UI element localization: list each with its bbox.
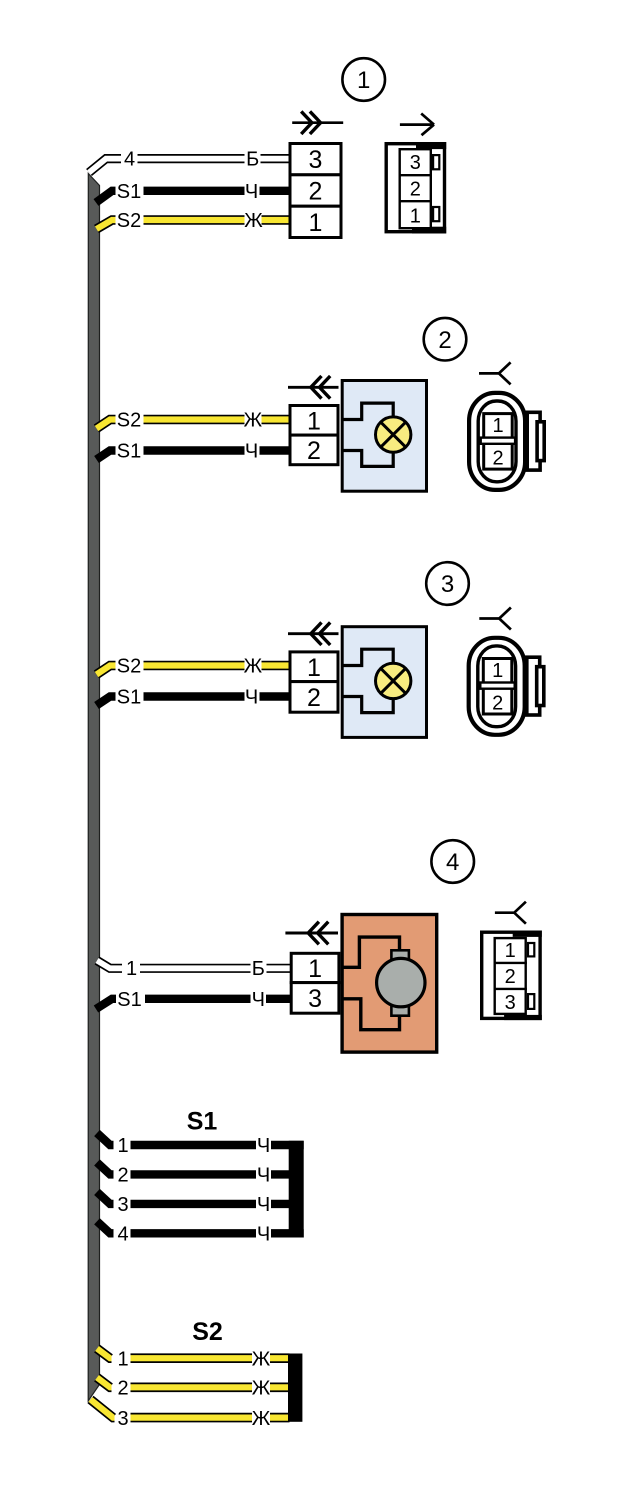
svg-text:2: 2: [438, 327, 451, 354]
splice S2 wire 1 (yellow, Ж): [97, 1349, 290, 1359]
svg-text:3: 3: [441, 571, 454, 598]
svg-text:S2: S2: [117, 656, 141, 678]
svg-text:Б: Б: [246, 149, 259, 171]
svg-text:2: 2: [493, 448, 504, 470]
svg-text:3: 3: [117, 1408, 128, 1430]
wire S1 (black, Ч) to motor pin 3: [96, 999, 292, 1009]
svg-text:3: 3: [308, 985, 322, 1013]
svg-text:2: 2: [117, 1165, 128, 1187]
svg-text:S2: S2: [117, 210, 141, 232]
svg-text:1: 1: [117, 1135, 128, 1157]
splice S2 wire 3 (yellow, Ж): [91, 1400, 290, 1418]
lamp 3 housing mating symbol: [479, 608, 511, 630]
wire S1 (black, Ч) to lamp 3 pin 2: [97, 697, 292, 706]
svg-text:1: 1: [410, 206, 421, 228]
lamp 2 housing mating symbol: [479, 362, 511, 384]
splice S2 bus bar: [288, 1354, 302, 1422]
connector X1 housing (face view): [386, 144, 444, 232]
wire 4 (white, Б) to pin 3: [89, 159, 291, 173]
svg-text:Ж: Ж: [244, 210, 263, 232]
motor armature (gray circle): [377, 958, 425, 1006]
splice S2 wire 2 (yellow, Ж): [97, 1378, 290, 1388]
svg-text:1: 1: [309, 209, 323, 237]
svg-text:4: 4: [124, 149, 135, 171]
svg-text:1: 1: [307, 407, 321, 435]
svg-text:2: 2: [410, 178, 421, 200]
callout circle 1: [342, 58, 385, 101]
svg-text:S2: S2: [117, 410, 141, 432]
svg-text:Ч: Ч: [245, 687, 258, 709]
lamp 3 connector pins 1-2: [290, 652, 338, 682]
lamp 3 connector housing (face view): [469, 638, 525, 735]
svg-text:4: 4: [117, 1224, 128, 1246]
connector X1 direction arrow (double chevron right): [292, 121, 343, 124]
svg-text:2: 2: [307, 437, 321, 465]
svg-text:Ж: Ж: [252, 1408, 271, 1430]
svg-text:Ч: Ч: [257, 1165, 270, 1187]
svg-text:Ч: Ч: [257, 1224, 270, 1246]
wire S1 (black, Ч) to pin 2: [96, 191, 291, 203]
svg-text:4: 4: [446, 849, 459, 876]
svg-text:S1: S1: [117, 441, 141, 463]
svg-text:Ж: Ж: [244, 410, 263, 432]
svg-text:1: 1: [357, 67, 370, 94]
connector X1 mating arrow: [400, 114, 434, 136]
svg-text:Ч: Ч: [245, 441, 258, 463]
svg-text:1: 1: [126, 958, 137, 980]
motor 4 connector pins 1-3: [291, 953, 339, 982]
svg-text:2: 2: [492, 693, 503, 715]
svg-text:3: 3: [117, 1194, 128, 1216]
wire S2 (yellow, Ж) to pin 1: [97, 220, 292, 229]
svg-text:S1: S1: [117, 989, 141, 1011]
svg-text:2: 2: [505, 966, 516, 988]
svg-text:Б: Б: [252, 958, 265, 980]
callout circle 4: [431, 840, 474, 883]
wire S1 (black, Ч) to lamp 2 pin 2: [97, 451, 292, 460]
lamp 3 connector chevron (double left): [288, 632, 339, 635]
svg-text:3: 3: [505, 992, 516, 1014]
svg-text:Ч: Ч: [257, 1194, 270, 1216]
svg-text:2: 2: [309, 178, 323, 206]
washer pump motor 4 (orange box): [342, 915, 437, 1053]
lamp 2 connector chevron (double left): [288, 386, 339, 389]
lamp 2 connector pins 1-2: [290, 406, 338, 436]
splice S1 wire 1 (black, Ч): [97, 1133, 304, 1145]
wire 1 (white, Б) to motor pin 1: [97, 961, 292, 969]
connector X1 pins 3-2-1: [290, 144, 341, 175]
svg-text:1: 1: [307, 654, 321, 682]
wire S2 (yellow, Ж) to lamp 3 pin 1: [97, 666, 292, 675]
svg-text:Ч: Ч: [252, 989, 265, 1011]
connector X4 mating symbol: [495, 902, 526, 924]
callout circle 3: [426, 562, 469, 605]
svg-text:2: 2: [307, 684, 321, 712]
svg-text:1: 1: [493, 415, 504, 437]
connector X4 housing (face view): [482, 932, 540, 1018]
splice S1 bus bar: [289, 1141, 304, 1238]
side-marker lamp 2 (bulb symbol): [342, 381, 426, 492]
svg-text:3: 3: [309, 146, 323, 174]
svg-text:Ж: Ж: [252, 1348, 271, 1370]
harness trunk: [88, 174, 99, 1401]
callout circle 2: [424, 318, 467, 361]
splice S1 wire 2 (black, Ч): [97, 1162, 290, 1174]
svg-text:3: 3: [410, 152, 421, 174]
wire S2 (yellow, Ж) to lamp 2 pin 1: [97, 420, 292, 429]
svg-text:S1: S1: [187, 1108, 218, 1136]
splice S1 wire 4 (black, Ч): [97, 1221, 304, 1233]
svg-text:2: 2: [117, 1378, 128, 1400]
svg-text:Ж: Ж: [252, 1378, 271, 1400]
svg-text:1: 1: [492, 660, 503, 682]
svg-text:1: 1: [308, 955, 322, 983]
svg-text:1: 1: [505, 940, 516, 962]
svg-text:1: 1: [117, 1348, 128, 1370]
svg-text:S1: S1: [117, 181, 141, 203]
svg-text:Ч: Ч: [245, 181, 258, 203]
svg-text:S1: S1: [117, 687, 141, 709]
svg-text:S2: S2: [192, 1318, 223, 1346]
splice S1 wire 3 (black, Ч): [97, 1192, 290, 1204]
svg-text:Ж: Ж: [244, 656, 263, 678]
motor 4 connector chevron (double left): [285, 932, 338, 935]
lamp 2 connector housing (face view): [469, 393, 525, 490]
side-marker lamp 3 (bulb symbol): [342, 627, 426, 738]
svg-text:Ч: Ч: [257, 1135, 270, 1157]
motor brushes: [391, 950, 409, 960]
